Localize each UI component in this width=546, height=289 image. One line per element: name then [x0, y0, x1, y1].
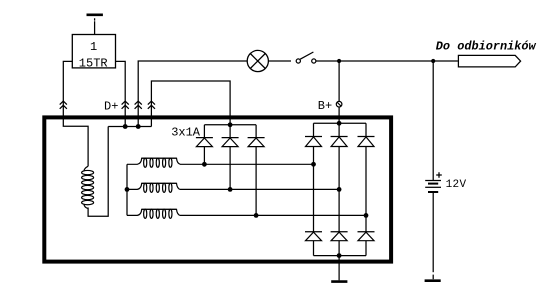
wire loads junction down to battery — [432, 61, 434, 181]
D+ rail inside housing — [108, 126, 151, 128]
regulator box U1 15TR — [72, 35, 115, 68]
field winding rotor coil — [82, 166, 94, 208]
wire switch to loads junction — [316, 60, 458, 62]
wire regulator left side down to brush connector and field winding top — [63, 61, 88, 166]
node D8 to phase 2 — [228, 187, 233, 192]
B+ terminal — [336, 101, 342, 107]
node battery junction — [431, 59, 435, 63]
node D+ rail 2 — [136, 124, 141, 129]
node B+ top junction — [337, 59, 341, 63]
stator winding L2 and phase 2 wire — [127, 183, 339, 192]
stator winding L1 and phase 1 wire — [127, 158, 314, 167]
svg-text:B+: B+ — [318, 99, 332, 113]
auxiliary diode D8 — [222, 125, 239, 190]
output pointer to loads — [458, 55, 520, 67]
svg-text:12V: 12V — [446, 179, 467, 191]
node phase 3 tap — [364, 213, 369, 218]
wire lamp to switch — [268, 60, 291, 62]
wire battery minus down to ground — [432, 192, 434, 272]
wire charge lamp down to D+ rail — [138, 61, 247, 127]
wire regulator right side down to D+ rail — [116, 61, 126, 126]
battery plus sign — [436, 172, 442, 177]
ground G2 bridge negative to chassis — [331, 256, 347, 282]
bridge column 2 with diodes D2 top D5 bottom — [331, 123, 348, 255]
svg-text:D+: D+ — [104, 99, 118, 113]
charge lamp H1 — [247, 50, 268, 71]
alternator housing — [44, 117, 391, 261]
connector arrow D+ 1 — [122, 101, 129, 109]
ground G3 battery — [425, 275, 441, 281]
node positive rail — [337, 121, 342, 126]
connector arrow (brush, left) — [60, 101, 67, 109]
auxiliary diode D7 — [196, 125, 213, 165]
bridge negative rail — [314, 255, 367, 257]
node D7 to phase 1 — [202, 162, 207, 167]
svg-text:Do odbiorników: Do odbiorników — [436, 39, 537, 53]
svg-text:15TR: 15TR — [79, 56, 108, 70]
ground G1 chassis ground above regulator — [87, 15, 103, 35]
wire B+ vertical — [338, 61, 340, 123]
node phase 1 tap — [311, 162, 316, 167]
wire field winding bottom to D+ rail — [88, 127, 108, 217]
battery B1 12V — [425, 181, 441, 193]
bridge column 3 with diodes D3 top D6 bottom — [358, 123, 375, 255]
node D+ rail 1 — [123, 124, 128, 129]
stator star point — [126, 164, 128, 215]
node phase 2 tap — [337, 187, 342, 192]
auxiliary diode rail — [204, 124, 256, 126]
node negative rail — [337, 253, 342, 258]
connector arrow D+ 2 — [135, 101, 142, 109]
auxiliary diode D9 — [248, 125, 265, 216]
svg-text:1: 1 — [90, 40, 97, 54]
bridge positive rail — [314, 122, 367, 124]
wire D+ rail up and over to auxiliary diode rail — [151, 81, 230, 127]
bridge column 1 with diodes D1 top D4 bottom — [305, 123, 322, 255]
node D9 to phase 3 — [254, 213, 259, 218]
stator winding L3 and phase 3 wire — [127, 209, 366, 218]
node auxiliary rail feed — [228, 122, 233, 127]
node star point — [125, 187, 130, 192]
connector arrow D+ 3 — [148, 101, 155, 109]
ignition switch S1 — [296, 52, 316, 63]
